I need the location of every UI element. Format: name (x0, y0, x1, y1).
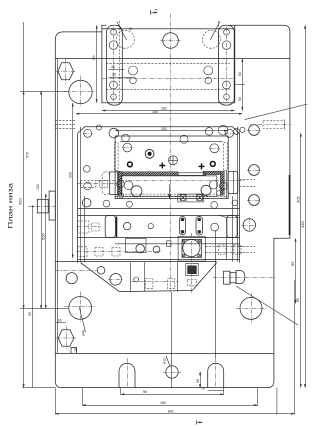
housing partial row line (115, 243, 240, 245)
locating cross 2 (199, 163, 205, 169)
dim notch 28 (199, 372, 201, 388)
inner housing rect (78, 127, 240, 263)
svg-text:ø40: ø40 (82, 330, 86, 336)
center block verticals (144, 262, 146, 291)
svg-text:570: 570 (26, 152, 30, 158)
small block left-mid (126, 239, 147, 253)
housing row line 5 (78, 259, 240, 261)
band right slot hole 3 (223, 81, 231, 89)
band dashed vertical right (218, 21, 220, 103)
cavity bottom leader arrow (168, 184, 171, 199)
band left slot (107, 25, 123, 105)
cavity inner top line (120, 141, 223, 143)
cavity right cap hatch (220, 171, 224, 195)
dim left mid (40, 91, 42, 309)
band right slot (219, 25, 235, 105)
ejector dashed rect 2 (168, 279, 175, 289)
band mid hole left upper (129, 66, 138, 75)
locating cross 1 (159, 163, 165, 169)
svg-text:30: 30 (129, 27, 133, 31)
band mid hole right lower (205, 77, 212, 84)
svg-text:801: 801 (168, 410, 174, 414)
side bolt dashed left (81, 180, 108, 187)
svg-text:65: 65 (290, 261, 295, 266)
bottom center hole (163, 366, 181, 378)
hexagon bolt top-left (55, 59, 77, 84)
lower center axis solid (171, 292, 173, 388)
sprue square (178, 237, 205, 262)
svg-text:50: 50 (91, 55, 96, 60)
band dashed vertical left (119, 21, 121, 103)
ejector dashed rect 1 (146, 279, 153, 289)
svg-text:430: 430 (300, 221, 305, 228)
band right slot hole 1 (224, 29, 230, 35)
right plug centerline (213, 277, 276, 279)
dim bottom 150 (82, 404, 257, 406)
cavity lower rect (121, 176, 216, 196)
section mark top (150, 10, 157, 15)
ejector row centerline (131, 281, 179, 283)
svg-text:50: 50 (238, 72, 242, 76)
sprue left small box (167, 241, 171, 247)
row holes (82, 198, 91, 207)
housing bottom line (55, 261, 216, 263)
support pillar block (178, 194, 204, 202)
svg-text:162: 162 (161, 106, 167, 110)
main vertical centerline (170, 14, 172, 292)
svg-text:25: 25 (28, 312, 32, 316)
dim bottom 19 (208, 390, 224, 392)
band left slot hole 1 (111, 29, 117, 35)
sprue hatched block (186, 263, 198, 275)
right rail block lower (227, 216, 237, 238)
band corner step left (102, 25, 107, 29)
svg-text:19: 19 (201, 386, 205, 390)
band dashed inner top (106, 63, 230, 65)
svg-text:96: 96 (143, 390, 147, 394)
band counterbore leader left (117, 22, 127, 41)
plate right edge thick segment (289, 175, 291, 235)
svg-text:ø12: ø12 (163, 358, 167, 364)
housing chamfer right (192, 263, 216, 291)
band dashed inner bottom (106, 89, 230, 91)
band left slot centerline (113, 27, 115, 102)
step notch detail (71, 348, 76, 354)
cavity bottom holes (117, 180, 125, 188)
cavity middle connector (178, 173, 205, 176)
svg-text:План низа: План низа (7, 182, 14, 228)
band right slot hole 2 (222, 41, 231, 50)
hole row top of housing (96, 125, 101, 130)
right edge dashed bolt (263, 119, 285, 130)
plate bottom step line (55, 353, 274, 355)
bolt symbols row2 (78, 247, 121, 256)
band center hole (161, 33, 181, 49)
band right slot centerline (226, 27, 228, 102)
bolt symbols row1 (78, 221, 100, 233)
right plug assembly (224, 271, 245, 285)
band counterbore leader right (210, 22, 220, 41)
left rail block upper (102, 172, 118, 195)
dim left 200 (72, 103, 74, 258)
dim right 305 (300, 133, 302, 388)
sprue dashed rect below (187, 280, 196, 286)
dim left outer (20, 22, 68, 388)
cavity horizontal centerline (96, 180, 246, 182)
right margin holes (247, 125, 261, 136)
right dashed connector upper (240, 180, 256, 187)
plate outline (55, 25, 290, 387)
right plug leader (236, 286, 298, 325)
dim bottom 96 (121, 393, 224, 395)
band counterbore dashed circle left (116, 30, 134, 48)
dim cavity width (115, 130, 227, 132)
cavity left cap hatch (118, 171, 122, 195)
band counterbore dashed circle right (202, 30, 220, 48)
sprue centerline (191, 233, 193, 294)
svg-text:305: 305 (296, 196, 301, 203)
left clamp (28, 191, 58, 388)
plate left inner line (57, 58, 59, 353)
dim right 50 50 (235, 58, 245, 110)
dim band small 56 (109, 77, 131, 79)
locating cross 3 (210, 162, 215, 167)
svg-text:28: 28 (196, 379, 200, 383)
dim band small 36 (109, 69, 125, 71)
chamfer hole centerline (55, 270, 97, 272)
bottom extension lines (56, 280, 295, 415)
left margin hole (66, 273, 77, 284)
svg-text:50: 50 (238, 97, 242, 101)
housing bottom shelf (119, 291, 192, 292)
cavity area holes (122, 143, 133, 152)
ejector small circle (134, 277, 139, 282)
cavity right edge inner line (226, 171, 228, 199)
right rail block upper (228, 171, 238, 194)
svg-text:200: 200 (68, 172, 72, 178)
housing chamfer left (81, 263, 120, 292)
band corner step right (230, 25, 235, 29)
lower big hole right (236, 294, 266, 324)
right dash-dot at 119.6 (250, 124, 291, 126)
svg-text:162: 162 (161, 127, 167, 131)
right dashed connector lower (240, 247, 256, 253)
sprue side dashed bolts (205, 245, 243, 255)
housing left col holes (83, 129, 93, 137)
svg-text:150: 150 (160, 401, 166, 405)
cavity left edge inner line (117, 171, 119, 199)
dashed hidden lines left margin (55, 120, 75, 122)
dim right full (304, 25, 306, 387)
svg-text:16: 16 (58, 318, 62, 322)
housing right col holes (224, 129, 234, 137)
housing row line 2 (78, 208, 240, 210)
housing row line 3 (78, 215, 240, 217)
housing dashed row (115, 196, 228, 198)
top band outer rect (102, 29, 235, 103)
band left slot hole 3 (110, 81, 118, 89)
housing second verticals (80, 127, 82, 262)
dim band width 162 (102, 110, 235, 112)
cavity hatched bar left (122, 172, 178, 175)
band right slot hole 4 (224, 94, 230, 100)
hidden channel left (114, 143, 118, 171)
bottom notch left (119, 358, 135, 388)
dim housing width (76, 113, 243, 115)
band mid hole right upper (204, 66, 213, 75)
band left slot hole 4 (111, 94, 117, 100)
dim right 65 (295, 238, 297, 303)
cavity outer rect (115, 136, 228, 199)
svg-text:36: 36 (111, 65, 115, 69)
left rail block lower (105, 216, 116, 238)
plate top edge line (55, 58, 290, 60)
lower hexagon (56, 326, 77, 350)
svg-text:120: 120 (36, 184, 40, 190)
svg-text:60: 60 (296, 298, 300, 302)
band horizontal centerline (102, 78, 235, 80)
cavity bottom dashed line (121, 193, 216, 195)
bolt pair center (180, 217, 186, 236)
lower big hole left (65, 292, 97, 323)
top right leader diagonal (245, 104, 308, 120)
svg-text:28: 28 (74, 348, 78, 352)
leader d12 (166, 356, 170, 366)
threaded hole dark (127, 162, 132, 167)
housing row line 4 (78, 237, 240, 239)
dim bottom 801 (55, 413, 295, 415)
guide hole top-left (64, 76, 96, 107)
svg-text:164: 164 (152, 110, 158, 114)
right notch vertical centerline long (215, 230, 217, 358)
svg-text:56: 56 (112, 73, 116, 77)
svg-text:420: 420 (18, 198, 23, 205)
bottom notch right (208, 358, 224, 388)
dim 16 left lower (56, 322, 66, 324)
right step block (218, 215, 239, 260)
section mark bottom (196, 420, 203, 424)
dim band left (96, 25, 98, 103)
cavity hatched bar right (203, 171, 220, 174)
svg-text:500: 500 (40, 233, 45, 240)
hidden channel right (224, 143, 228, 171)
band mid hole left lower (130, 77, 137, 84)
leader d40 (79, 306, 86, 332)
band left slot hole 2 (109, 41, 118, 50)
dim left inner (45, 194, 47, 309)
